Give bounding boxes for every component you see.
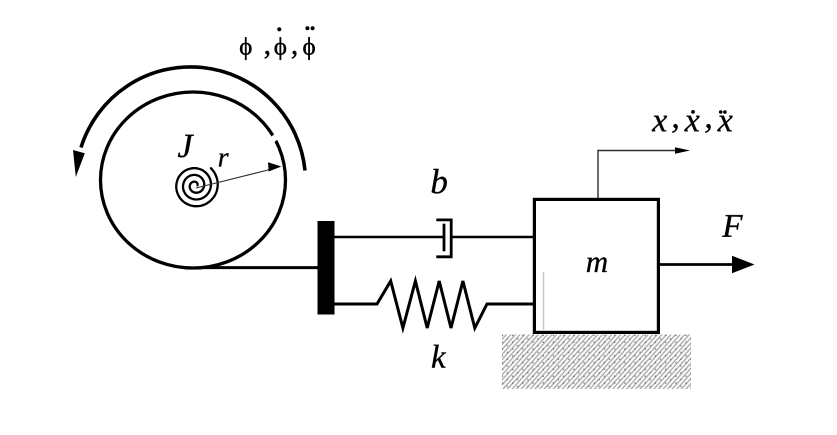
wheel rim gap [266,131,283,145]
label r [219,153,229,166]
plate anchor [318,221,335,315]
rope from wheel to plate [200,266,318,269]
x leader arrowhead [675,147,690,154]
force arrow F [660,263,733,266]
label x-dot [684,116,699,132]
label k [432,345,446,368]
label phi-ddot [303,37,314,60]
stray faint line in mass [543,272,545,331]
force arrowhead [732,256,755,273]
comma [292,51,296,59]
wheel J [101,92,286,268]
label b [432,169,447,194]
label phi [240,37,251,60]
damper cylinder [436,220,451,257]
spring k [334,281,534,328]
label x [652,116,667,132]
torsion spiral at wheel hub [176,168,218,206]
label m [587,257,607,272]
ground hatch [502,335,691,390]
comma [672,124,677,133]
damper rod right [453,236,535,239]
comma [705,124,710,133]
rotation arc arrow phi [81,67,305,171]
label phi-dot [275,37,286,60]
radius arrow r [196,170,270,189]
label J [178,135,194,158]
mass m block [534,199,658,332]
rotation arc arrowhead [73,150,85,177]
damper rod left [334,236,444,239]
comma [265,51,269,59]
label x-ddot [717,116,732,132]
damper piston [443,224,446,252]
label F [722,215,743,237]
x leader arrow [598,151,676,199]
